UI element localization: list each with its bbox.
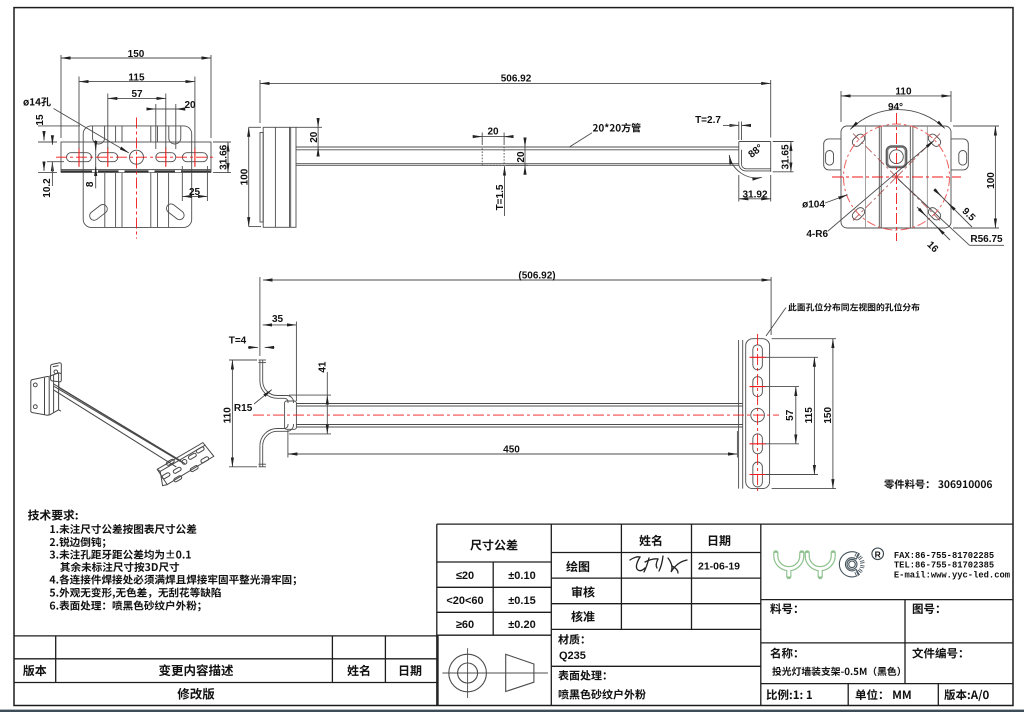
svg-text:材质：: 材质： <box>558 632 591 648</box>
svg-text:100: 100 <box>986 172 997 189</box>
svg-text:6.表面处理：喷黑色砂纹户外粉；: 6.表面处理：喷黑色砂纹户外粉； <box>49 598 207 613</box>
svg-text:核准: 核准 <box>571 608 595 625</box>
svg-text:450: 450 <box>503 444 520 455</box>
svg-text:修改版: 修改版 <box>177 683 215 702</box>
svg-text:R56.75: R56.75 <box>970 234 1003 245</box>
svg-text:T=1.5: T=1.5 <box>495 184 506 210</box>
svg-text:±0.10: ±0.10 <box>508 570 535 582</box>
svg-text:名称：: 名称： <box>770 645 805 661</box>
svg-text:115: 115 <box>128 72 145 83</box>
svg-text:变更内容描述: 变更内容描述 <box>158 660 234 679</box>
svg-text:技术要求:: 技术要求: <box>28 507 79 524</box>
svg-text:≥60: ≥60 <box>456 619 474 631</box>
svg-text:±0.20: ±0.20 <box>508 619 535 631</box>
svg-text:±0.15: ±0.15 <box>508 595 535 607</box>
svg-text:41: 41 <box>318 361 329 373</box>
svg-text:4-R6: 4-R6 <box>806 229 828 240</box>
svg-text:20: 20 <box>516 151 527 163</box>
svg-text:20: 20 <box>309 131 320 143</box>
svg-text:此面孔位分布同左视图的孔位分布: 此面孔位分布同左视图的孔位分布 <box>788 301 920 314</box>
svg-text:投光灯墙装支架-0.5M（黑色）: 投光灯墙装支架-0.5M（黑色） <box>772 664 907 678</box>
svg-text:日期: 日期 <box>707 532 731 549</box>
svg-text:21-06-19: 21-06-19 <box>698 561 740 573</box>
svg-text:姓名: 姓名 <box>347 662 371 679</box>
svg-text:100: 100 <box>239 168 250 185</box>
svg-text:E-mail:www.yyc-led.com: E-mail:www.yyc-led.com <box>894 571 1010 581</box>
svg-text:(506.92): (506.92) <box>518 271 555 282</box>
svg-text:150: 150 <box>128 49 145 60</box>
svg-text:110: 110 <box>895 87 912 98</box>
svg-text:T=2.7: T=2.7 <box>695 115 721 126</box>
svg-text:版本: 版本 <box>23 662 47 679</box>
svg-text:57: 57 <box>785 409 796 421</box>
svg-text:115: 115 <box>804 407 815 424</box>
svg-text:150: 150 <box>823 407 834 424</box>
svg-text:20*20方管: 20*20方管 <box>593 120 642 135</box>
svg-text:TEL:86-755-81702385: TEL:86-755-81702385 <box>894 561 994 571</box>
svg-text:31.92: 31.92 <box>742 189 767 200</box>
svg-text:姓名: 姓名 <box>639 532 663 549</box>
svg-text:R: R <box>875 549 881 559</box>
svg-text:110: 110 <box>223 407 234 424</box>
svg-text:审核: 审核 <box>571 583 595 600</box>
svg-text:零件料号： 306910006: 零件料号： 306910006 <box>884 476 993 491</box>
svg-text:25: 25 <box>189 187 201 198</box>
svg-text:20: 20 <box>487 127 499 138</box>
svg-text:10.2: 10.2 <box>42 178 53 198</box>
svg-text:单位： MM: 单位： MM <box>855 687 912 703</box>
svg-text:版本:A/0: 版本:A/0 <box>944 687 990 703</box>
svg-text:<20<60: <20<60 <box>446 595 483 607</box>
svg-text:图号：: 图号： <box>912 601 947 617</box>
svg-text:94°: 94° <box>888 102 903 113</box>
svg-text:ø104: ø104 <box>802 200 825 211</box>
svg-text:20: 20 <box>184 100 196 111</box>
svg-text:T=4: T=4 <box>229 336 247 347</box>
svg-text:ø14孔: ø14孔 <box>23 94 51 109</box>
svg-text:35: 35 <box>272 314 284 325</box>
svg-text:比例:1: 1: 比例:1: 1 <box>766 687 813 703</box>
svg-text:Q235: Q235 <box>559 650 586 662</box>
svg-text:31.66: 31.66 <box>219 144 230 169</box>
svg-text:表面处理：: 表面处理： <box>558 668 613 684</box>
svg-text:506.92: 506.92 <box>501 74 532 85</box>
svg-text:绘图: 绘图 <box>566 558 590 575</box>
svg-text:尺寸公差: 尺寸公差 <box>470 537 518 554</box>
svg-text:FAX:86-755-81702285: FAX:86-755-81702285 <box>894 551 994 561</box>
svg-text:8: 8 <box>85 181 96 187</box>
svg-text:料号：: 料号： <box>770 601 805 617</box>
svg-text:文件编号：: 文件编号： <box>912 645 970 661</box>
svg-text:R15: R15 <box>234 403 253 414</box>
svg-text:喷黑色砂纹户外粉: 喷黑色砂纹户外粉 <box>558 686 646 702</box>
svg-text:15: 15 <box>35 114 46 126</box>
svg-text:日期: 日期 <box>398 662 422 679</box>
svg-text:≤20: ≤20 <box>456 570 474 582</box>
svg-text:57: 57 <box>131 89 143 100</box>
svg-text:31.65: 31.65 <box>780 144 791 169</box>
